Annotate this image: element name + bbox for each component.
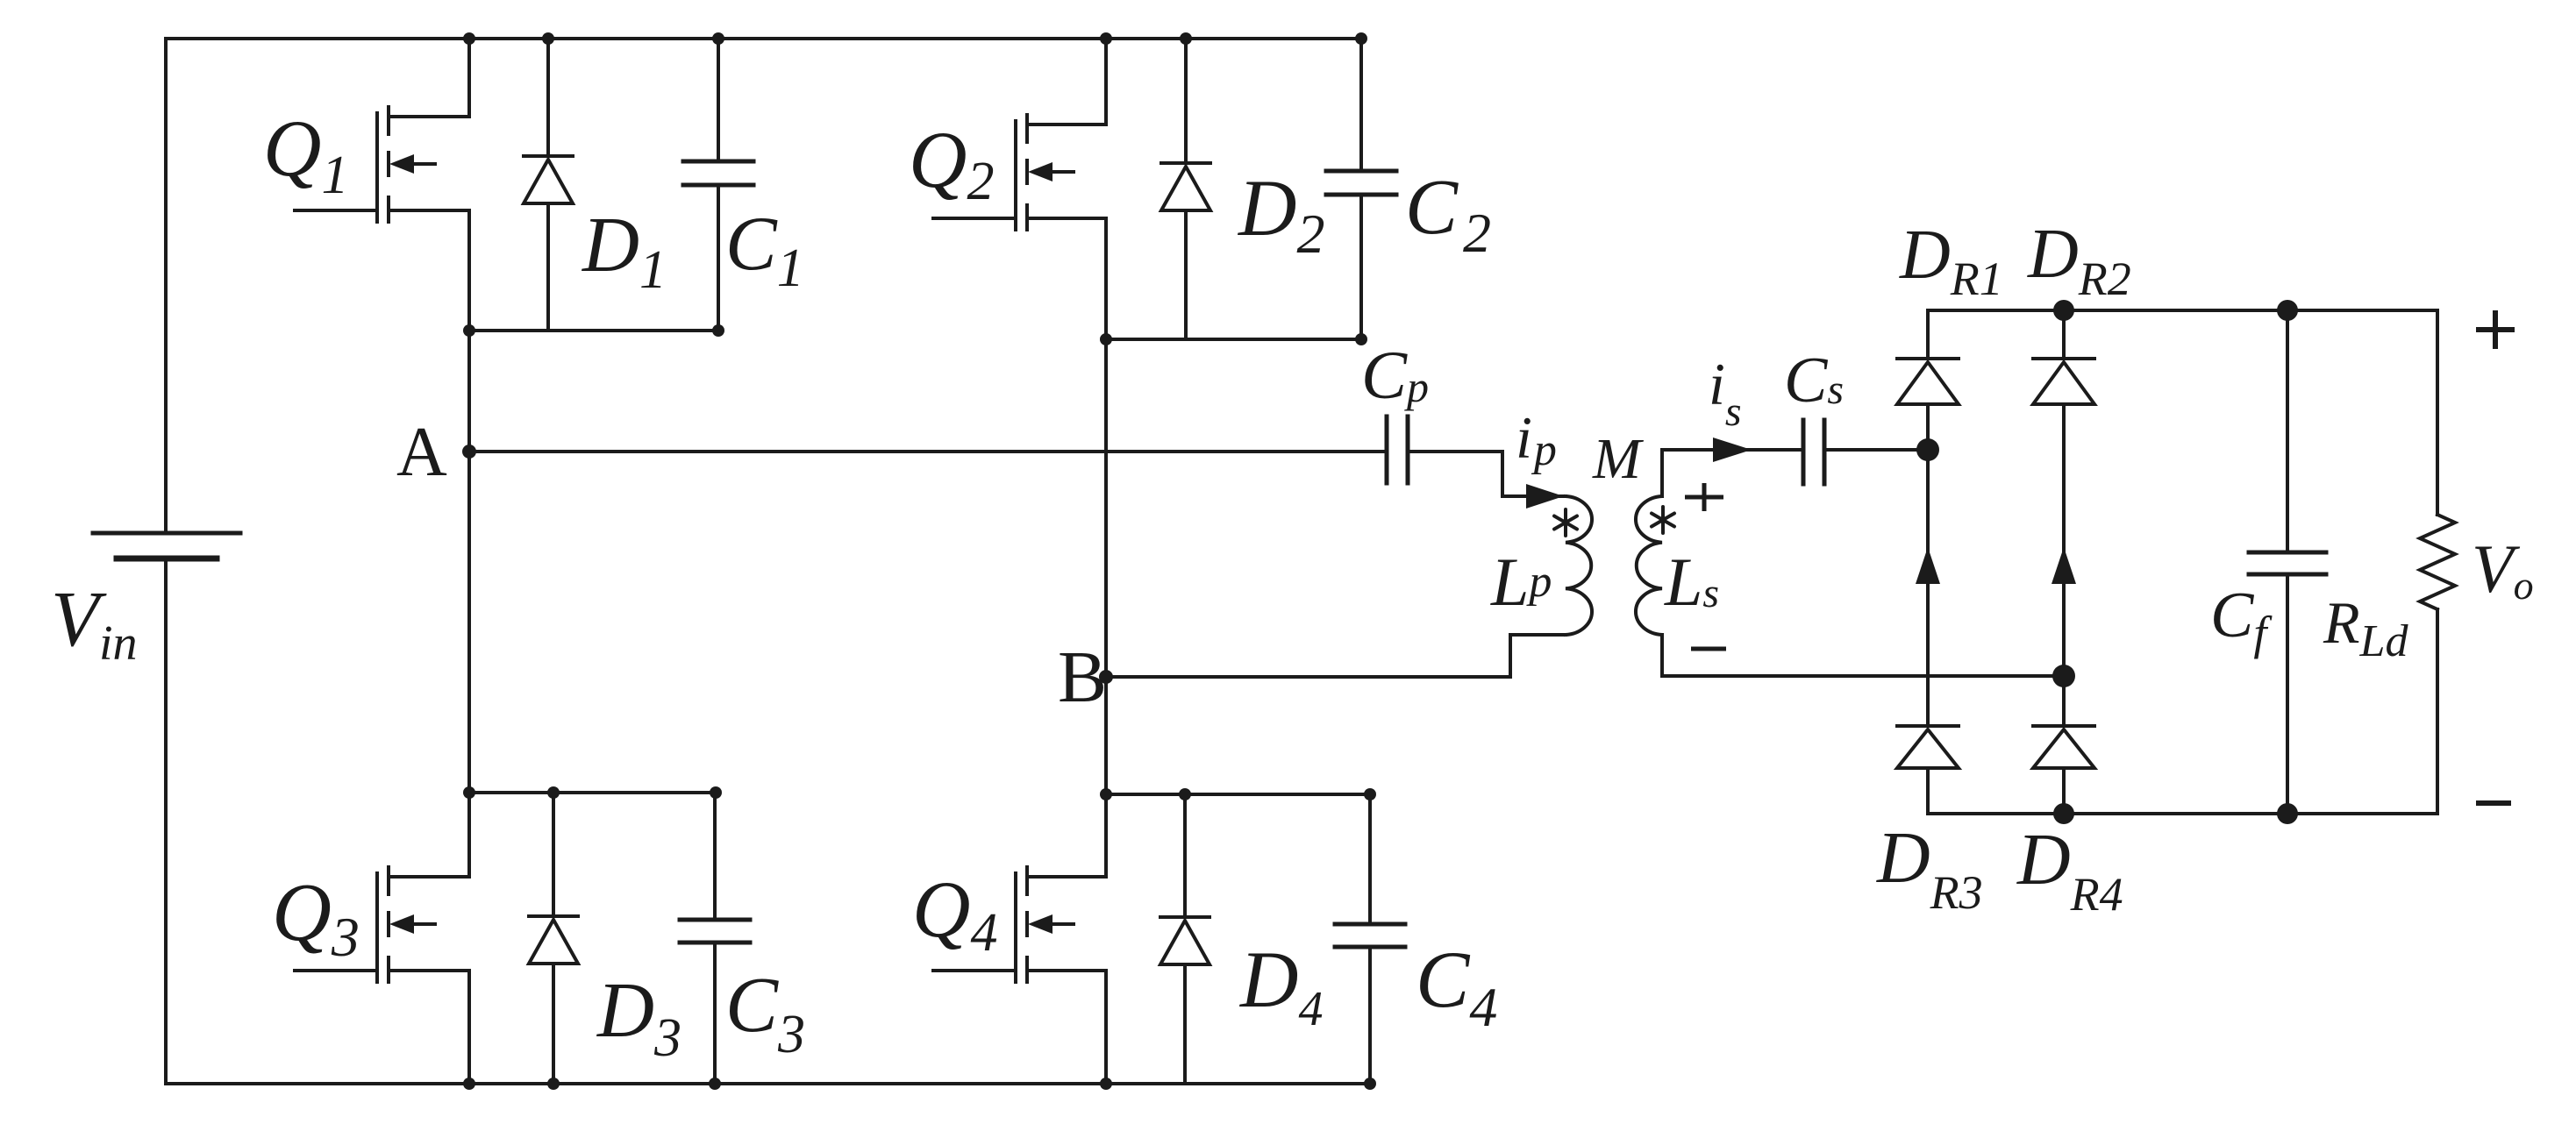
wire Cf leg top [2286, 310, 2289, 552]
node dot rectifier bottom DR4 [2053, 803, 2074, 824]
diode D2 [1161, 39, 1210, 339]
diode DR2 [2033, 359, 2094, 404]
minus sign output [2476, 800, 2511, 806]
svg-text:C3: C3 [725, 962, 805, 1064]
node dot cell3 rail left [463, 786, 475, 799]
svg-text:D3: D3 [596, 967, 681, 1068]
inductor Lp primary winding [1566, 496, 1592, 635]
diode DR1 [1897, 359, 1959, 404]
node dot top bus D2 [1180, 32, 1192, 45]
svg-text:Q4: Q4 [912, 864, 997, 963]
capacitor C2 [1326, 39, 1396, 339]
node dot bottom bus Q3 [463, 1078, 475, 1090]
wire Q4 drain leg [1104, 794, 1108, 877]
node dot bottom bus C3 [709, 1078, 721, 1090]
wire Cp to primary step [1408, 450, 1502, 453]
node B dot [1099, 670, 1113, 684]
wire Cs to rectifier junction [1824, 448, 1928, 452]
wire left vertical from top bus to battery [164, 39, 168, 533]
wire Q3 drain leg [467, 793, 471, 877]
diode DR3 [1897, 726, 1959, 768]
node dot cell4 rail D4 [1179, 788, 1191, 800]
wire Q1 drain leg [467, 39, 471, 117]
node dot top bus D1 [542, 32, 554, 45]
wire Lp bottom to step [1510, 633, 1566, 637]
svg-text:Cs: Cs [1784, 345, 1844, 416]
svg-text:Q1: Q1 [263, 103, 348, 205]
node dot bottom bus Q4 [1100, 1078, 1112, 1090]
svg-text:DR2: DR2 [2027, 216, 2131, 305]
current arrow leg2 [2052, 547, 2076, 584]
transistor Q4 (MOSFET) [933, 867, 1106, 982]
node dot top bus C2 [1355, 32, 1367, 45]
svg-text:D4: D4 [1238, 935, 1323, 1036]
svg-text:RLd: RLd [2323, 589, 2408, 666]
wire rectifier leg2 bottom [2062, 768, 2066, 814]
diode D1 [524, 39, 573, 331]
wire node-A leg (cell1 rail to cell3 rail) [467, 331, 471, 793]
wire Q2 drain leg [1104, 39, 1108, 124]
node dot rectifier top DR2 [2053, 300, 2074, 321]
wire secondary bottom to rectifier leg2 [1662, 674, 2064, 678]
transistor Q3 (MOSFET) [295, 867, 469, 982]
wire cell2 bottom rail [1106, 338, 1361, 341]
svg-text:DR1: DR1 [1899, 217, 2003, 305]
svg-text:Q3: Q3 [272, 867, 360, 968]
svg-text:A: A [396, 414, 447, 491]
svg-text:Vin: Vin [51, 576, 138, 671]
battery Vin positive plate [93, 531, 240, 536]
diode D4 [1160, 794, 1210, 1084]
svg-text:Cp: Cp [1361, 337, 1429, 413]
capacitor C4 [1335, 794, 1405, 1084]
wire cell1 bottom rail [469, 329, 718, 332]
plus sign output [2476, 327, 2515, 332]
wire Q1 source leg [467, 210, 471, 331]
capacitor Cp [1387, 416, 1408, 483]
wire node-B leg (cell2 rail to cell4 rail) [1104, 339, 1108, 794]
wire rectifier leg2 top [2062, 310, 2066, 359]
polarity mark * secondary [1652, 507, 1674, 533]
svg-text:C1: C1 [725, 202, 804, 298]
wire cell3 top rail [469, 791, 716, 794]
node dot bottom bus C4 [1364, 1078, 1376, 1090]
node dot cell2 rail right [1355, 333, 1367, 345]
polarity mark * primary [1554, 509, 1577, 536]
wire Cf leg bottom [2286, 574, 2289, 814]
node dot cell1 rail right [712, 324, 724, 337]
node dot cell4 rail left [1100, 788, 1112, 800]
wire rectifier leg1 middle [1926, 404, 1930, 726]
diode D3 [529, 793, 578, 1084]
wire RLd leg bottom [2436, 609, 2439, 814]
svg-text:D1: D1 [581, 202, 667, 300]
node dot cell1 rail left [463, 324, 475, 337]
wire primary step down [1501, 452, 1504, 496]
svg-text:D2: D2 [1237, 163, 1324, 265]
node dot cell4 rail right [1364, 788, 1376, 800]
wire Q4 source leg [1104, 971, 1108, 1084]
node dot top bus Q1 [463, 32, 475, 45]
node dot secondary bottom on leg2 [2052, 665, 2075, 687]
wire primary bottom step down [1509, 635, 1512, 677]
node dot top bus C1 [712, 32, 724, 45]
wire left vertical from battery to bottom bus [164, 558, 168, 1084]
wire top bus [166, 37, 1361, 40]
battery Vin negative plate [117, 556, 217, 562]
node dot cell2 rail left [1100, 333, 1112, 345]
node dot top bus Q2 [1100, 32, 1112, 45]
minus sign secondary [1691, 647, 1726, 651]
svg-text:Ls: Ls [1664, 544, 1719, 620]
inductor Ls secondary winding [1636, 496, 1662, 635]
svg-text:M: M [1592, 427, 1645, 491]
wire cell4 top rail [1106, 793, 1370, 796]
transistor Q1 (MOSFET) [295, 107, 469, 222]
svg-text:B: B [1058, 637, 1107, 718]
node dot cell3 rail right [710, 786, 722, 799]
capacitor C1 [683, 39, 753, 331]
transistor Q2 (MOSFET) [933, 115, 1106, 230]
wire RLd leg top [2436, 310, 2439, 515]
wire rectifier bottom rail [1928, 812, 2437, 815]
resistor RLd zigzag [2420, 515, 2455, 609]
svg-text:Cf: Cf [2210, 580, 2273, 659]
svg-text:Lp: Lp [1490, 544, 1552, 620]
svg-text:Vo: Vo [2472, 530, 2534, 608]
current arrow leg1 [1916, 547, 1940, 584]
node dot bottom bus D3 [547, 1078, 560, 1090]
svg-text:is: is [1709, 351, 1742, 435]
node A dot [462, 445, 476, 459]
wire Ls top to Cs with is arrow [1662, 448, 1803, 452]
wire Ls bottom stub down [1660, 635, 1664, 676]
svg-text:ip: ip [1516, 404, 1557, 475]
plus sign secondary [1685, 495, 1723, 500]
wire rectifier top rail [1928, 309, 2437, 312]
wire rectifier leg1 top [1926, 310, 1930, 359]
node dot cell3 rail D3 [547, 786, 560, 799]
wire primary into Lp with ip arrow [1502, 494, 1566, 498]
wire rectifier leg2 middle [2062, 404, 2066, 726]
wire bottom bus [166, 1082, 1370, 1085]
capacitor Cs [1803, 420, 1824, 484]
svg-text:C4: C4 [1416, 935, 1497, 1038]
wire rectifier leg1 bottom [1926, 768, 1930, 814]
diode DR4 [2033, 726, 2094, 768]
node dot rectifier bottom Cf [2277, 803, 2298, 824]
wire node A to Cp [469, 450, 1387, 453]
wire Q2 source leg [1104, 218, 1108, 339]
PLACEHOLDER-LEFT [469, 310, 2455, 814]
node dot Cs junction on leg1 [1916, 438, 1939, 461]
node dot rectifier top Cf [2277, 300, 2298, 321]
capacitor Cf [2249, 552, 2326, 574]
svg-text:DR3: DR3 [1876, 817, 1983, 919]
svg-text:Q2: Q2 [909, 115, 994, 211]
wire Q3 source leg [467, 971, 471, 1084]
svg-text:DR4: DR4 [2016, 819, 2123, 921]
svg-text:C2: C2 [1405, 164, 1491, 264]
capacitor C3 [680, 793, 750, 1084]
wire Ls top stub up [1660, 450, 1664, 496]
wire node B to primary bottom [1106, 675, 1510, 679]
